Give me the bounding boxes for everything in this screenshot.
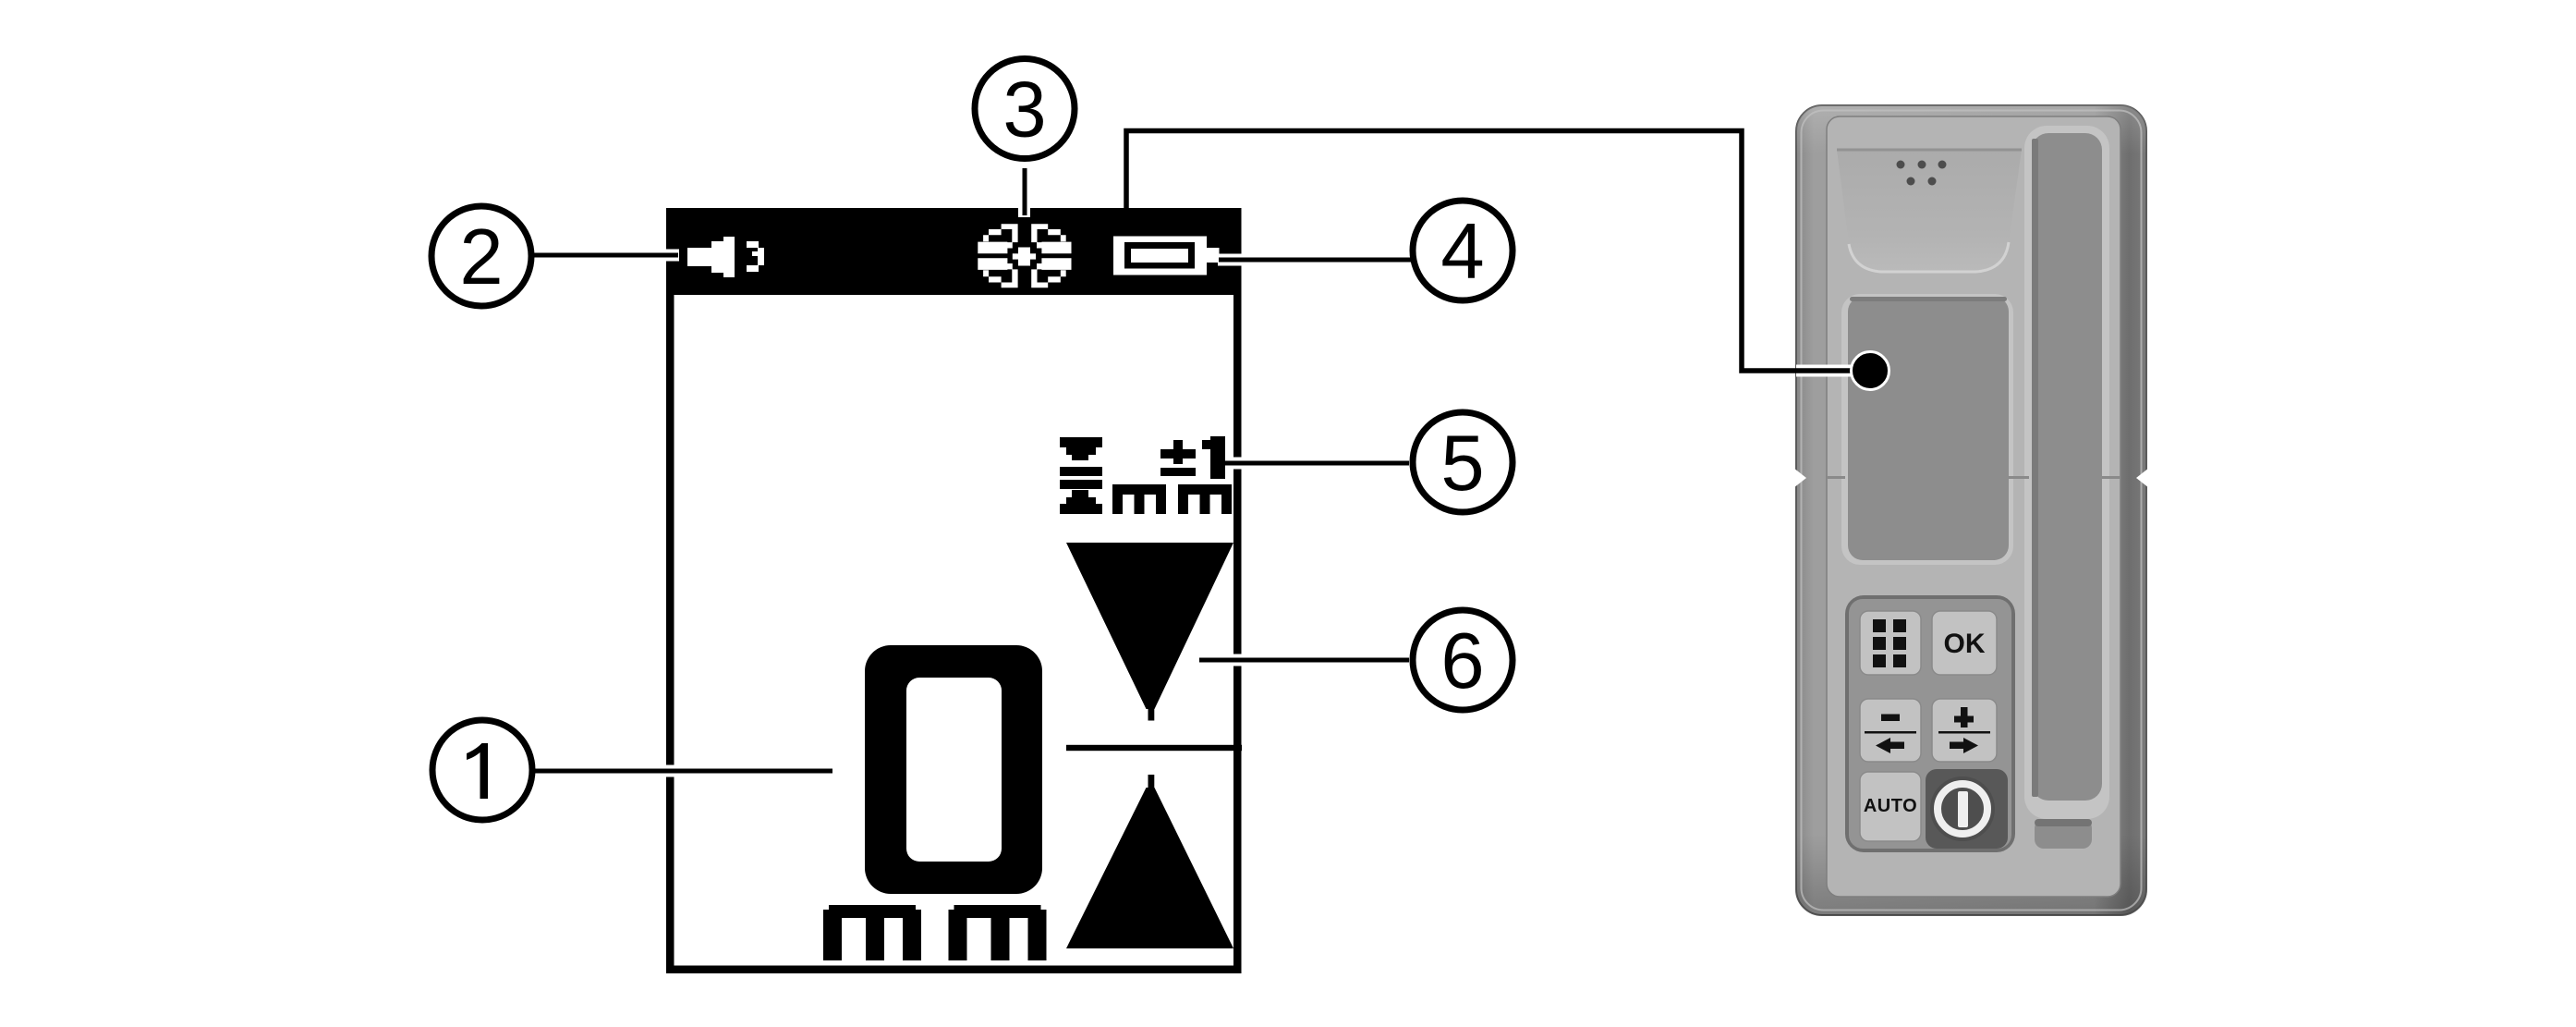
svg-text:AUTO: AUTO: [1864, 796, 1917, 816]
svg-text:5: 5: [1440, 420, 1484, 507]
svg-text:2: 2: [459, 214, 503, 301]
svg-text:4: 4: [1440, 208, 1484, 296]
svg-text:6: 6: [1440, 617, 1484, 705]
svg-text:OK: OK: [1944, 629, 1986, 659]
svg-text:3: 3: [1002, 67, 1046, 154]
